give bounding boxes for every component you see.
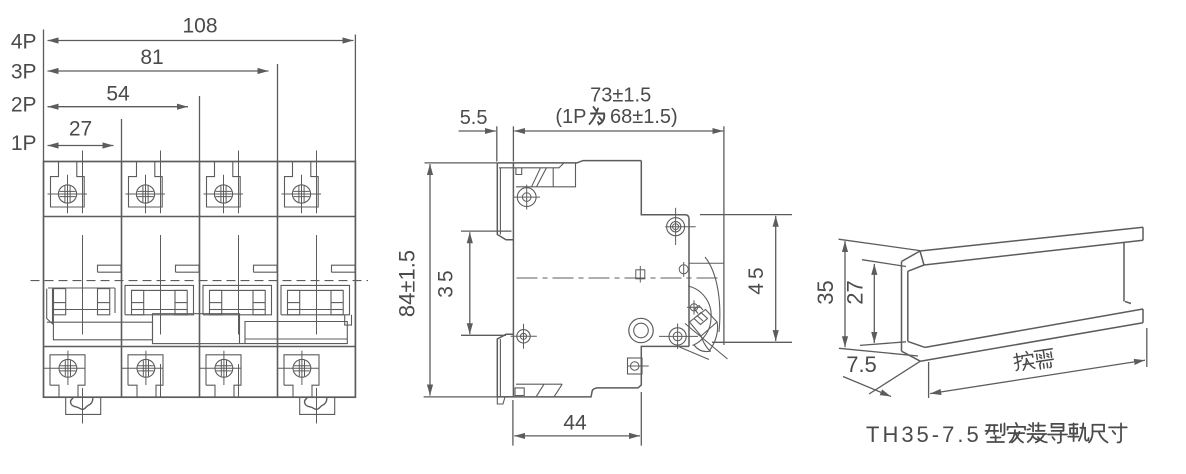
rail top lip (left end): [902, 251, 925, 271]
pole 4 bottom terminal screw: [293, 359, 311, 377]
toggle pivot circle arc: [688, 286, 711, 346]
svg-text:TH35-7.5: TH35-7.5: [866, 422, 982, 447]
pole 1 centerline (lower, through clip): [82, 388, 84, 424]
side view bottom big terminal screw: [629, 318, 653, 342]
small square marker on centerline: [636, 270, 645, 279]
dimension 108 arrow (4P): [48, 40, 354, 42]
dimension 44: [512, 400, 514, 446]
dimension 35 (DIN slot): [469, 232, 471, 334]
top terminal section divider: [44, 216, 356, 218]
pole 1 bottom terminal cage: [50, 355, 85, 397]
bottom terminal section divider: [44, 346, 356, 348]
top DIN clip slider detail: [499, 163, 576, 187]
svg-text:35: 35: [813, 280, 838, 304]
pole 1 latch connector line: [66, 309, 98, 311]
pole 4 bottom screw centerlines: [278, 367, 320, 369]
pole 3 centerline (middle): [238, 235, 240, 335]
pole 3 centerline (upper): [238, 151, 240, 214]
dimension 按需 (length as needed): [928, 362, 930, 398]
toggle handle swing arc: [705, 257, 720, 332]
pole 2 latch coil box: [175, 290, 187, 314]
pole 4 centerline (middle): [316, 235, 318, 335]
pole 3 top screw centerlines: [204, 193, 244, 195]
tiny pivot cross circle: [690, 304, 697, 311]
pole 1 top terminal cage: [51, 162, 85, 208]
glyph 轨: [1069, 423, 1077, 425]
side view front-top screw: [667, 218, 685, 236]
pole 2 bottom screw centerlines: [122, 367, 164, 369]
glyph 为: [594, 107, 597, 111]
pole 3 top terminal screw: [214, 185, 232, 203]
dimension 5.5: [459, 130, 496, 132]
svg-text:73±1.5: 73±1.5: [590, 85, 651, 107]
pole 4 bottom terminal cage: [284, 355, 319, 397]
pole 1 latch left strip: [47, 289, 53, 324]
side view horizontal centerline: [517, 277, 720, 279]
pole 1 centerline (upper): [82, 151, 84, 214]
short reference line to front extension: [690, 262, 724, 264]
toggle handle knob: [690, 306, 718, 337]
pole 4 centerline (upper): [316, 151, 318, 214]
pole 4 latch mechanism: [281, 285, 350, 314]
pole 1 latch coil box: [98, 289, 110, 315]
glyph 导: [1052, 424, 1064, 428]
pole 2 top screw centerlines: [126, 193, 166, 195]
svg-text:27: 27: [842, 280, 867, 304]
pole 4 right-side step detail: [345, 315, 352, 325]
svg-text:5.5: 5.5: [460, 107, 488, 129]
pole 1 latch mechanism: [48, 287, 115, 289]
pole 1 bottom screw centerlines: [44, 367, 86, 369]
rail bottom flange: [920, 309, 1143, 361]
side view front bottom / terminal mouth: [497, 346, 689, 397]
pole 1 window tab above centerline: [98, 265, 122, 272]
pole 3 top terminal cage: [207, 162, 241, 208]
rail web (left end): [902, 262, 908, 352]
lower bar spanning poles 1-2: [47, 315, 153, 340]
pole 2 window tab above centerline: [176, 265, 200, 272]
glyph 按: [1014, 354, 1019, 371]
pole 4 top terminal cage: [285, 162, 319, 208]
extension line for dim at x=277.5: [277, 64, 279, 162]
front view: 4-pole circuit breaker body outline: [44, 162, 356, 398]
svg-text:7.5: 7.5: [846, 352, 877, 377]
pole 3 bottom terminal screw: [215, 359, 233, 377]
pole 2 latch connector line: [144, 309, 175, 311]
pole 3 latch mechanism: [203, 285, 272, 314]
side view back edge: [512, 163, 514, 397]
glyph 安: [1016, 423, 1017, 425]
pole 2 centerline (lower): [160, 364, 162, 397]
svg-text:27: 27: [69, 118, 92, 141]
pole 3 centerline (lower): [238, 364, 240, 397]
glyph 型: [986, 424, 997, 426]
extension line for dim at x=121.5: [121, 119, 123, 162]
glyph 需: [1034, 349, 1052, 352]
toggle crossing diagonals: [680, 324, 728, 360]
svg-text:45: 45: [745, 263, 768, 294]
glyph 尺: [1093, 425, 1105, 432]
svg-text:81: 81: [140, 46, 163, 69]
side view top face: [497, 161, 641, 163]
pole 3 window tab above centerline: [254, 265, 278, 272]
pole 4 clip spring cutout: [305, 398, 327, 409]
pole 4 window tab above centerline: [332, 265, 356, 272]
glyph 装: [1027, 425, 1031, 430]
svg-text:108: 108: [182, 15, 217, 38]
pole 4 top terminal screw: [292, 185, 310, 203]
bottom small port square with circle: [628, 358, 643, 374]
pole 1 top terminal screw: [58, 185, 76, 203]
dimension 81 arrow (3P): [48, 70, 269, 72]
svg-text:2P: 2P: [11, 94, 37, 117]
svg-text:(1P: (1P: [555, 106, 586, 128]
rail top flange: [920, 227, 1143, 265]
svg-text:68±1.5): 68±1.5): [610, 106, 678, 128]
pole divider lines: [121, 162, 123, 398]
pole 1 centerline (middle): [82, 235, 84, 335]
side view front step and face: [641, 161, 689, 347]
dimension 73±1.5: [514, 130, 723, 132]
extension line for dim at x=355.4: [354, 35, 356, 162]
pole 1 clip spring cutout: [71, 398, 93, 409]
pole 3 bottom screw centerlines: [200, 367, 242, 369]
pole 3 bottom terminal cage: [206, 355, 241, 397]
svg-text:84±1.5: 84±1.5: [395, 250, 420, 317]
rail bottom lip (left end): [902, 341, 926, 361]
central handle tie-bar rectangle: [153, 314, 240, 344]
pole 3 latch coil box: [253, 290, 265, 314]
pole 4 top screw centerlines: [282, 193, 322, 195]
dimension 84±1.5 vertical: [429, 164, 431, 396]
pole 1 latch coil box: [54, 289, 66, 315]
extension lines for 5.5/73: [496, 126, 498, 161]
dimension 54 arrow (2P): [48, 106, 189, 108]
side view back-bottom screw: [517, 330, 530, 343]
glyph 寸: [1109, 426, 1127, 428]
pole 2 top terminal cage: [129, 162, 163, 208]
small round marker upper front: [679, 265, 688, 274]
pole 4 latch coil box: [331, 290, 343, 314]
pole 1 bottom terminal screw: [59, 359, 77, 377]
dimension 27 (rail): [862, 260, 906, 267]
pole 4 latch coil box: [288, 290, 300, 314]
svg-text:1P: 1P: [11, 132, 37, 155]
pole 1 top screw centerlines: [48, 193, 88, 195]
svg-text:35: 35: [435, 266, 458, 297]
horizontal dashed centerline across front view: [31, 280, 369, 282]
pole 3 latch coil box: [210, 290, 222, 314]
side view back plate (DIN rail side): [497, 163, 513, 240]
pole 2 latch coil box: [132, 290, 144, 314]
pole 1 DIN mounting clip: [66, 397, 101, 414]
pole 2 centerline (middle): [160, 235, 162, 335]
svg-text:4P: 4P: [11, 31, 37, 54]
pole 2 centerline (upper): [160, 151, 162, 214]
extension line for dim at x=199.5: [199, 96, 201, 162]
pole 4 DIN mounting clip: [300, 397, 335, 414]
pole 2 latch mechanism: [125, 285, 194, 314]
lower bar spanning poles 3-4: [240, 322, 348, 344]
left extension line of front view dims: [43, 30, 45, 162]
pole 2 bottom terminal cage: [128, 355, 163, 397]
dimension 7.5 (rail depth): [869, 361, 920, 394]
back plate bottom foot: [497, 397, 505, 404]
svg-text:3P: 3P: [11, 61, 37, 84]
pole 2 bottom terminal screw: [137, 359, 155, 377]
pole 2 top terminal screw: [136, 185, 154, 203]
side view back-top screw: [517, 188, 536, 207]
pole 4 latch connector line: [300, 309, 331, 311]
rail right cut end of web: [1124, 242, 1131, 304]
dimension 45: [700, 214, 792, 216]
bottom DIN clip slider detail: [515, 384, 562, 397]
svg-text:54: 54: [106, 83, 130, 106]
dimension 35 (rail): [839, 239, 921, 250]
pole 3 latch connector line: [222, 309, 253, 311]
svg-text:44: 44: [563, 412, 587, 435]
dimension 27 arrow (1P): [48, 145, 114, 147]
side view front-bottom screw: [669, 328, 686, 345]
pole 4 centerline (lower, through clip): [316, 388, 318, 424]
caption glyphs 型安装导轨尺寸: [985, 423, 1126, 443]
